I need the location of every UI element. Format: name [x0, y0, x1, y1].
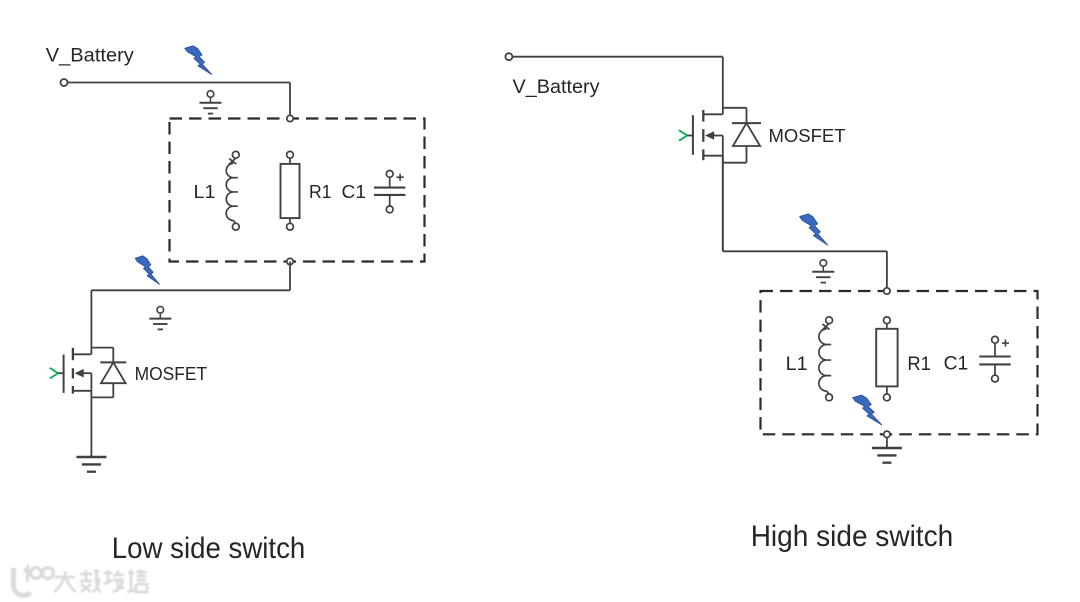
- ESD strike bolt 1 (left, on supply wire): [185, 46, 212, 75]
- svg-text:R1: R1: [907, 354, 931, 375]
- svg-text:MOSFET: MOSFET: [135, 363, 208, 384]
- wire from box bottom down (left): [289, 262, 291, 291]
- svg-text:L1: L1: [786, 354, 808, 375]
- label R1 (right): [907, 354, 931, 375]
- svg-text:High side switch: High side switch: [751, 520, 954, 553]
- transistor MOSFET (right) with body diode: [679, 57, 761, 252]
- svg-text:MOSFET: MOSFET: [769, 125, 846, 146]
- caption Low side switch: [112, 532, 305, 565]
- node V_Battery terminal (left circuit): [61, 79, 68, 86]
- wire horizontal to filter box (right): [723, 250, 887, 252]
- ESD strike bolt 2 (left, on drain wire): [135, 256, 159, 284]
- node junction on box top (right): [884, 288, 890, 294]
- ESD strike bolt 4 (right, inside box): [853, 395, 882, 425]
- ground (earth, right filter return): [872, 448, 902, 463]
- filter box (dashed, left): [170, 119, 425, 262]
- resistor R1 (right): [876, 317, 897, 401]
- wire down to filter box top (left): [289, 83, 291, 119]
- capacitor C1 (left): [374, 171, 405, 213]
- ground (earth, left MOSFET source): [76, 457, 106, 472]
- label L1 (left): [194, 182, 216, 202]
- ground (signal, near supply wire, left): [200, 91, 222, 114]
- node junction on box top (left): [287, 115, 293, 121]
- svg-text:R1: R1: [309, 182, 332, 202]
- label MOSFET (left): [135, 363, 208, 384]
- label C1 (left): [342, 182, 367, 202]
- watermark logo and text (bottom-left): [14, 568, 148, 596]
- resistor R1 (left): [281, 151, 300, 230]
- node junction on box bottom (right): [884, 431, 890, 437]
- svg-text:C1: C1: [944, 353, 969, 374]
- node junction on box bottom (left): [287, 258, 293, 264]
- svg-text:Low side switch: Low side switch: [112, 532, 305, 565]
- transistor MOSFET (left) with body diode: [50, 290, 127, 457]
- label C1 (right): [944, 353, 969, 374]
- svg-text:V_Battery: V_Battery: [46, 46, 135, 67]
- wire horizontal to MOSFET drain (left): [91, 289, 290, 291]
- wire V_Battery horizontal (right): [512, 56, 722, 58]
- label V_Battery (left): [46, 46, 135, 67]
- inductor L1 (left): [226, 151, 239, 230]
- svg-text:C1: C1: [342, 182, 367, 202]
- svg-text:V_Battery: V_Battery: [513, 77, 601, 98]
- wire V_Battery horizontal (left): [68, 82, 291, 84]
- svg-text:L1: L1: [194, 182, 216, 202]
- ground (signal, near source wire, right): [812, 260, 834, 283]
- wire down to box top (right): [886, 251, 888, 291]
- wire junction to ground stem (right): [886, 438, 888, 449]
- label V_Battery (right): [513, 77, 601, 98]
- inductor L1 (right): [819, 317, 833, 401]
- filter box (dashed, right): [761, 291, 1038, 434]
- label MOSFET (right): [769, 125, 846, 146]
- caption High side switch: [751, 520, 954, 553]
- ground (signal, near drain wire, left): [149, 307, 171, 330]
- capacitor C1 (right): [979, 336, 1010, 382]
- wire MOSFET source down (right): [722, 156, 724, 252]
- node V_Battery terminal (right circuit): [505, 53, 512, 60]
- label R1 (left): [309, 182, 332, 202]
- ESD strike bolt 3 (right, on source wire): [800, 214, 828, 245]
- label L1 (right): [786, 354, 808, 375]
